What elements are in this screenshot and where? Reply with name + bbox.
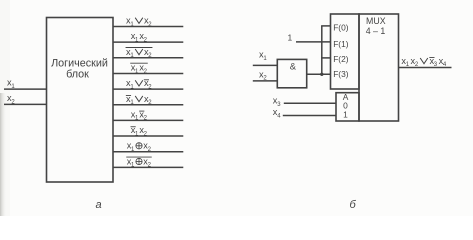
svg-text:блок: блок — [66, 69, 89, 81]
wire x1 to and gate — [253, 64, 277, 66]
label output 7: x1 AND NOT x2 — [131, 109, 148, 121]
label output 10: NOT(x1 XOR x2) — [126, 156, 151, 168]
label input x2 — [7, 93, 15, 105]
wire x4 to address 1 — [283, 115, 336, 117]
logic block U1 — [47, 18, 114, 183]
label input x1 — [7, 78, 15, 90]
label output 4: NOT(x1 AND x2) — [130, 62, 148, 74]
wire x2 to and gate — [253, 80, 277, 82]
svg-text:F(0): F(0) — [333, 22, 349, 32]
wire bus to F(2) — [321, 57, 330, 59]
svg-text:б: б — [350, 199, 357, 211]
wire output 5 — [113, 88, 183, 90]
svg-text:MUX: MUX — [366, 16, 386, 26]
wire bus vertical (and output to F0) — [321, 26, 323, 74]
wire input x1 — [4, 88, 47, 90]
wire output 9 — [113, 151, 183, 153]
wire x3 to address 0 — [284, 102, 336, 104]
junction dot at bus and F(3) wire — [320, 73, 323, 76]
svg-text:4 – 1: 4 – 1 — [366, 26, 386, 36]
wire output 7 — [113, 119, 183, 121]
label input x2 (and gate) — [259, 69, 267, 81]
svg-text:а: а — [96, 199, 102, 211]
svg-text:1: 1 — [343, 110, 348, 120]
label input x3 — [273, 96, 281, 108]
label output 6: NOT x1 OR x2 — [126, 94, 152, 106]
label input x4 — [273, 107, 281, 119]
wire output 10 — [113, 166, 183, 168]
label mux output function — [401, 56, 447, 68]
svg-text:F(1): F(1) — [333, 39, 349, 49]
svg-text:F(3): F(3) — [333, 69, 349, 79]
wire constant 1 to F(1) — [296, 41, 331, 43]
mux U2 address field A — [336, 92, 359, 121]
label output 5: x1 OR NOT x2 — [126, 78, 152, 90]
label input x1 (and gate) — [259, 50, 267, 62]
svg-text:F(2): F(2) — [333, 54, 349, 64]
mux U2 data field F(0)-F(3) — [331, 14, 360, 89]
label output 3: NOT(x1 OR x2) — [126, 47, 153, 59]
wire bus to F(0) — [321, 25, 330, 27]
svg-text:&: & — [290, 61, 297, 72]
wire mux output — [399, 67, 452, 69]
mux U2 body — [359, 14, 399, 121]
label output 1: x1 OR x2 — [126, 16, 152, 28]
label output 8: NOT x1 AND x2 — [131, 125, 148, 137]
wire output 3 — [113, 57, 183, 59]
label output 9: x1 XOR x2 — [127, 141, 152, 153]
label output 2: x1 AND x2 — [131, 31, 148, 43]
wire and gate output to F(3) — [307, 73, 331, 75]
wire output 1 — [113, 26, 183, 28]
wire output 4 — [113, 72, 183, 74]
wire output 2 — [113, 41, 183, 43]
wire output 8 — [113, 135, 183, 137]
svg-text:1: 1 — [288, 33, 293, 43]
wire output 6 — [113, 104, 183, 106]
and gate D1 — [277, 59, 306, 87]
wire input x2 — [4, 103, 47, 105]
